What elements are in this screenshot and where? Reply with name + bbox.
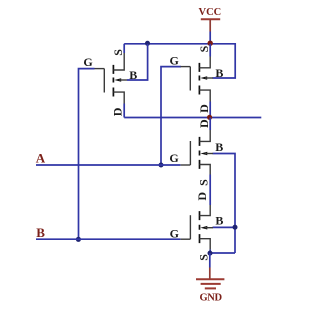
power symbol VCC bbox=[199, 7, 222, 31]
svg-text:B: B bbox=[215, 140, 223, 154]
channel segments Q1 bbox=[112, 65, 114, 97]
bulk pin Q4 bbox=[205, 227, 213, 229]
wire VCC rail to T2 bulk bbox=[124, 44, 235, 78]
wire T2 source to VCC rail bbox=[209, 44, 211, 57]
wire T3 bulk to bulk rail bbox=[213, 154, 236, 254]
wire VCC stem bbox=[209, 32, 211, 44]
bulk pin Q2 bbox=[205, 77, 213, 79]
svg-text:B: B bbox=[36, 225, 45, 240]
svg-text:D: D bbox=[110, 107, 124, 116]
drain pin Q4 bbox=[200, 205, 211, 216]
wire T1 bulk to VCC rail bbox=[127, 44, 148, 80]
junction dot input A at T2/T3 gates bbox=[159, 163, 164, 168]
svg-text:B: B bbox=[215, 214, 223, 228]
wire T2 drain to output node bbox=[209, 102, 211, 118]
svg-text:S: S bbox=[111, 49, 125, 56]
svg-text:D: D bbox=[197, 119, 211, 128]
transistor Q3 NMOS body bbox=[181, 130, 214, 175]
bulk arrow Q1 bbox=[114, 78, 121, 82]
svg-text:S: S bbox=[197, 45, 211, 52]
channel segments Q2 bbox=[198, 63, 200, 95]
source pin Q3 bbox=[200, 165, 211, 175]
source pin Q1 bbox=[113, 53, 124, 70]
wire ground stem bbox=[209, 253, 211, 268]
junction dot output at T2/T3 drains bbox=[207, 115, 212, 120]
gate plate Q2 bbox=[189, 67, 191, 91]
wire T4 bulk to bulk rail bbox=[213, 226, 236, 228]
svg-text:VCC: VCC bbox=[199, 7, 222, 18]
junction dot bulk rail at T4 bulk bbox=[233, 225, 238, 230]
transistor Q2 PMOS body bbox=[181, 57, 214, 102]
bulk arrow Q4 bbox=[200, 226, 207, 230]
wire ground node to bulk rail bbox=[210, 252, 235, 254]
wire T3 drain to output node bbox=[209, 118, 211, 131]
junction dot ground node at T4 source bbox=[208, 251, 213, 256]
svg-text:D: D bbox=[197, 104, 211, 113]
wire T1 gate to input B net bbox=[79, 69, 95, 239]
transistor Q1 PMOS body bbox=[95, 53, 128, 104]
svg-text:S: S bbox=[197, 179, 211, 186]
bulk arrow Q2 bbox=[200, 76, 207, 80]
svg-text:A: A bbox=[36, 150, 46, 165]
source pin Q4 bbox=[200, 239, 211, 250]
wire input B bbox=[36, 238, 180, 240]
junction dot VCC rail at T1 bulk riser bbox=[145, 41, 150, 46]
gate plate Q1 bbox=[103, 69, 105, 93]
wire T1 drain to output node bbox=[123, 104, 125, 118]
gate plate Q3 bbox=[189, 141, 191, 165]
svg-text:B: B bbox=[129, 68, 137, 82]
gate pin black part Q3 bbox=[181, 164, 191, 166]
source pin Q2 bbox=[199, 57, 210, 68]
svg-text:G: G bbox=[170, 227, 179, 241]
gate plate Q4 bbox=[189, 215, 191, 239]
wire output node Y bbox=[124, 117, 261, 119]
svg-text:G: G bbox=[169, 151, 178, 165]
svg-text:G: G bbox=[83, 55, 92, 69]
drain pin Q3 bbox=[200, 130, 211, 141]
bulk pin Q3 bbox=[205, 153, 213, 155]
channel segments Q3 bbox=[199, 137, 201, 169]
wire T3 source to T4 drain bbox=[209, 175, 211, 206]
wire T2 gate to input A net bbox=[161, 67, 181, 165]
bulk arrow Q3 bbox=[200, 152, 207, 156]
gate pin black part Q4 bbox=[181, 238, 191, 240]
svg-text:D: D bbox=[195, 192, 209, 201]
gate pin black part Q1 bbox=[95, 68, 105, 70]
junction dot VCC rail at T2 source bbox=[208, 41, 213, 46]
drain pin Q1 bbox=[113, 92, 124, 103]
wire T4 source to ground node bbox=[209, 249, 211, 253]
channel segments Q4 bbox=[199, 211, 201, 243]
svg-text:B: B bbox=[215, 66, 223, 80]
wire T3 gate blue stub bbox=[161, 164, 180, 166]
transistor Q4 NMOS body bbox=[181, 205, 214, 249]
junction dot input B at T1 gate bbox=[76, 237, 81, 242]
svg-text:GND: GND bbox=[200, 293, 223, 304]
bulk pin Q1 bbox=[119, 79, 127, 81]
gate pin black part Q2 bbox=[181, 66, 191, 68]
svg-text:G: G bbox=[170, 54, 179, 68]
svg-text:S: S bbox=[196, 254, 210, 261]
ground symbol GND bbox=[196, 268, 224, 304]
drain pin Q2 bbox=[199, 90, 210, 101]
wire input A bbox=[36, 164, 161, 166]
wire T1 source to VCC rail bbox=[123, 44, 125, 53]
